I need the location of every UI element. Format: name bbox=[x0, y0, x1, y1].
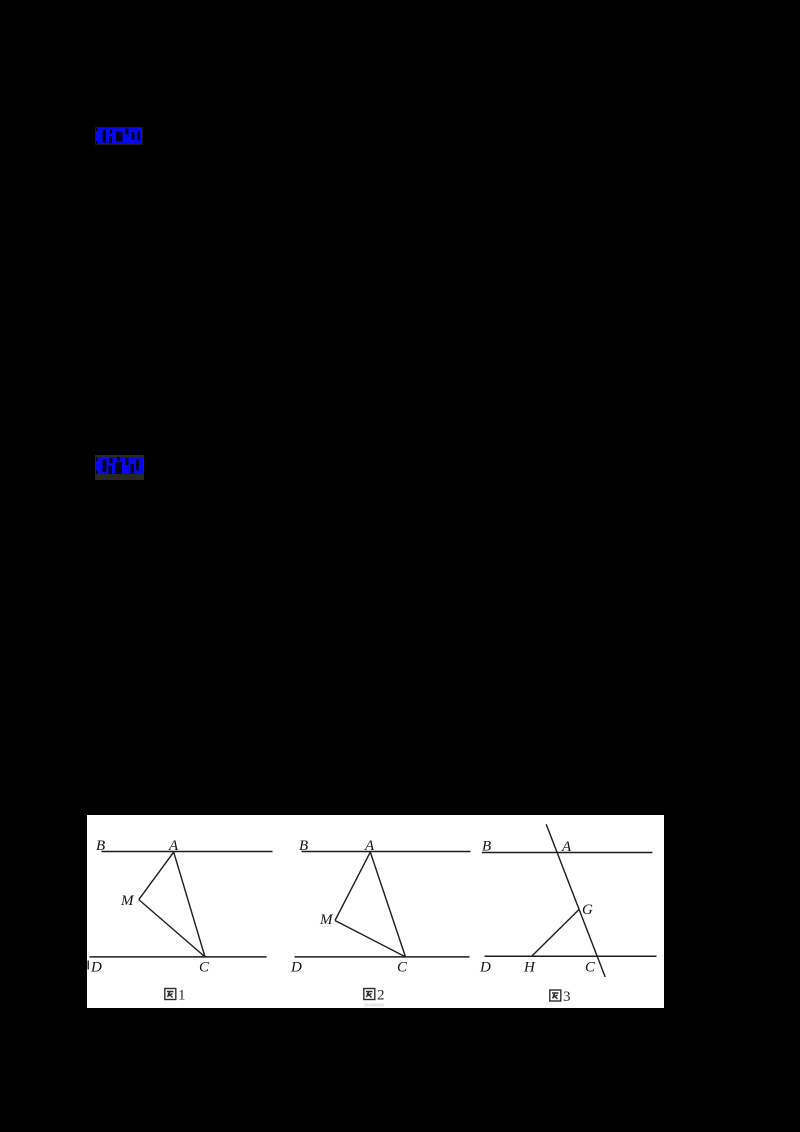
figure 1 bottom parallel line bbox=[90, 956, 267, 958]
svg-text:B: B bbox=[482, 839, 491, 855]
glyph gaps label 1 bbox=[96, 128, 142, 144]
blue highlighted label 1 bbox=[95, 127, 143, 145]
caption glyph tu fig1 bbox=[165, 989, 176, 1000]
svg-text:H: H bbox=[523, 960, 536, 976]
svg-text:D: D bbox=[90, 960, 102, 976]
figure 2 segment A-C bbox=[370, 852, 405, 957]
figure 1 left edge tick bbox=[87, 961, 89, 970]
svg-text:A: A bbox=[168, 838, 179, 854]
figure 3 bottom parallel line bbox=[485, 955, 657, 957]
white figure panel bbox=[87, 815, 664, 1008]
caption glyph tu fig3 bbox=[550, 990, 561, 1001]
svg-text:B: B bbox=[96, 838, 105, 854]
figure 1 segment M-C bbox=[139, 900, 205, 957]
figure 1 segment A-M bbox=[139, 852, 174, 900]
svg-text:2: 2 bbox=[377, 988, 385, 1004]
caption glyph tu fig2 bbox=[364, 989, 375, 1000]
figure 1 top parallel line bbox=[102, 851, 273, 853]
svg-text:C: C bbox=[585, 960, 596, 976]
svg-text:C: C bbox=[397, 960, 408, 976]
glyph gaps label 2 bbox=[96, 457, 143, 474]
figure 1 segment A-C bbox=[174, 852, 205, 957]
figure 2 segment A-M bbox=[335, 852, 370, 920]
svg-text:B: B bbox=[299, 838, 308, 854]
svg-text:C: C bbox=[199, 960, 210, 976]
figure 2 segment M-C bbox=[335, 921, 406, 957]
svg-text:3: 3 bbox=[563, 989, 571, 1005]
svg-text:G: G bbox=[582, 902, 593, 918]
faint remnant below caption 2 bbox=[364, 1004, 384, 1007]
figure 3 top parallel line bbox=[482, 852, 653, 854]
svg-text:A: A bbox=[364, 838, 375, 854]
figure 3 transversal through A, G, C bbox=[546, 824, 605, 977]
figure 3 segment H-G bbox=[532, 910, 579, 957]
svg-text:M: M bbox=[319, 912, 334, 928]
figure 2 bottom parallel line bbox=[295, 956, 470, 958]
svg-text:D: D bbox=[479, 960, 491, 976]
figure 2 top parallel line bbox=[302, 851, 471, 853]
svg-text:D: D bbox=[290, 960, 302, 976]
svg-text:A: A bbox=[561, 839, 572, 855]
svg-text:M: M bbox=[120, 893, 135, 909]
svg-text:1: 1 bbox=[178, 988, 186, 1004]
blue highlighted label 2 bbox=[95, 455, 144, 480]
